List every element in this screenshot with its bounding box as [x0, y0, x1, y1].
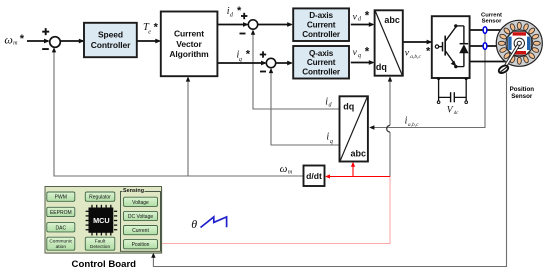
svg-text:Fault: Fault	[95, 239, 106, 245]
wire: J3 to Q-axis Current Controller	[276, 61, 293, 66]
label: Current Sensor	[481, 13, 502, 25]
label: v_abc* voltage command	[405, 46, 431, 61]
svg-text:Regulator: Regulator	[89, 195, 111, 201]
transistor: IGBT inside inverter	[435, 27, 456, 66]
summing junction J2 (d-axis current)	[240, 13, 258, 35]
current sensor dot on phase a	[483, 27, 487, 34]
block: abc to dq transform (Park)	[340, 96, 368, 161]
wire: speed feedback omega_m from d/dt to summing junction J1	[52, 47, 303, 176]
svg-text:Current: Current	[132, 228, 149, 234]
block: Speed Controller	[84, 23, 137, 57]
svg-text:d/dt: d/dt	[306, 171, 322, 181]
label: Vdc	[447, 106, 459, 117]
board button: Regulator	[85, 192, 115, 201]
wire: v_q* from Q-axis controller to abc/dq block	[351, 60, 375, 65]
svg-text:*: *	[426, 46, 431, 58]
wire: theta (pink) from Position block on control board	[158, 177, 391, 244]
board button: DAC	[47, 223, 75, 232]
wire: i_d feedback from dq/abc block to junction J2	[251, 30, 340, 110]
svg-text:Sensing: Sensing	[123, 188, 144, 194]
wire: omega_m branch up into Current Vector Algorithm	[186, 76, 190, 176]
svg-text:Current: Current	[307, 21, 336, 30]
control board base	[45, 187, 162, 254]
svg-text:a,b,c: a,b,c	[410, 54, 421, 60]
wire: i_q feedback from dq/abc block to junction J3	[269, 68, 340, 145]
label: i_q measured	[326, 132, 333, 146]
svg-text:Current: Current	[307, 58, 336, 67]
block: d/dt differentiator	[304, 166, 325, 187]
wire: theta (red) into d/dt block	[325, 174, 390, 178]
board group: Sensing	[121, 187, 161, 251]
svg-text:m: m	[288, 170, 293, 176]
summing junction J3 (q-axis current)	[260, 51, 276, 72]
label: Position Sensor	[510, 86, 535, 100]
label: omega_m* reference	[4, 32, 24, 46]
svg-text:*: *	[365, 46, 370, 58]
svg-text:Controller: Controller	[91, 40, 131, 50]
wire: position sensor signal down right side and into control board	[151, 73, 506, 267]
block: Current Vector Algorithm	[161, 12, 218, 77]
current sensor dot on phase b	[483, 43, 487, 50]
svg-text:Sensor: Sensor	[511, 93, 533, 100]
diode: freewheel diode inside inverter	[454, 24, 469, 68]
board button: DC Voltage	[124, 211, 158, 220]
svg-text:Position: Position	[132, 242, 150, 248]
wire: inverter phase output b to motor	[470, 45, 498, 47]
svg-text:q: q	[330, 139, 333, 145]
wire: v_d* from D-axis controller to abc/dq block	[351, 22, 375, 27]
svg-text:Q-axis: Q-axis	[309, 49, 334, 58]
svg-text:*: *	[365, 11, 370, 23]
block: Q-axis Current Controller	[293, 46, 349, 79]
svg-text:abc: abc	[384, 15, 400, 25]
svg-text:abc: abc	[350, 148, 366, 158]
wire: i_d* from CVA to junction J2	[217, 22, 248, 27]
svg-text:Voltage: Voltage	[132, 200, 149, 206]
label: i_q* current command	[237, 49, 251, 63]
svg-text:Speed: Speed	[98, 30, 123, 40]
label: v_d* voltage command	[353, 11, 370, 23]
board button: Position	[124, 240, 158, 249]
svg-text:ω: ω	[4, 32, 12, 46]
board button: Voltage	[124, 197, 158, 206]
position sensor disc	[498, 64, 510, 74]
board button: Current	[124, 226, 158, 235]
wire: inverter phase output c to motor	[470, 61, 507, 63]
wire: theta (red) up into dq/abc block	[351, 162, 355, 177]
svg-text:Algorithm: Algorithm	[169, 49, 209, 59]
svg-text:m: m	[13, 40, 18, 46]
motor shaft to position sensor	[504, 41, 521, 68]
wire: inverter phase output a to motor	[470, 29, 502, 31]
wire: i_abc measured currents from current sensors to dq/abc block	[369, 30, 485, 130]
label: Te* torque command	[143, 22, 159, 36]
block: inverter outline	[432, 16, 470, 78]
wire: Te* from Speed Controller to Current Vector Algorithm	[137, 39, 161, 44]
board button: EEPROM	[47, 207, 75, 216]
svg-text:DAC: DAC	[56, 225, 67, 231]
svg-text:Controller: Controller	[302, 68, 341, 77]
svg-text:Sensor: Sensor	[482, 19, 502, 25]
svg-text:ω: ω	[280, 163, 288, 175]
svg-text:*: *	[246, 49, 251, 61]
svg-text:*: *	[154, 22, 159, 34]
board button: Communication	[47, 237, 75, 250]
block: D-axis Current Controller	[293, 8, 349, 41]
board button: PWM	[47, 192, 75, 201]
svg-text:q: q	[239, 57, 242, 63]
label: theta with sawtooth waveform	[191, 217, 226, 231]
svg-text:dq: dq	[343, 102, 354, 112]
wire: J2 to D-axis Current Controller	[258, 22, 293, 27]
wire: theta signal up into abc/dq block with hop over i_abc wire	[387, 76, 393, 176]
svg-text:D-axis: D-axis	[309, 11, 333, 20]
wire: omega_m* reference input into J1	[27, 39, 50, 44]
motor: PMSM cross-section	[490, 14, 549, 73]
label: i_d measured	[325, 96, 332, 108]
svg-text:Position: Position	[510, 86, 535, 93]
wire: v_abc* from abc/dq block to inverter	[403, 40, 432, 45]
label: v_q* voltage command	[353, 46, 370, 59]
svg-text:MCU: MCU	[93, 216, 110, 225]
svg-text:Communic: Communic	[49, 239, 73, 245]
svg-text:θ: θ	[191, 217, 197, 231]
svg-text:DC Voltage: DC Voltage	[128, 214, 154, 220]
svg-text:e: e	[148, 30, 151, 36]
svg-text:ation: ation	[56, 244, 67, 250]
svg-text:dq: dq	[376, 62, 387, 72]
capacitor: DC link capacitor C with Vdc	[437, 77, 468, 103]
block: dq to abc transform (inverse Park)	[375, 10, 403, 75]
label: i_abc measured	[405, 115, 420, 128]
board chip: MCU	[86, 205, 118, 236]
svg-text:*: *	[20, 33, 25, 45]
svg-text:Vector: Vector	[176, 39, 202, 49]
svg-text:Detection: Detection	[90, 244, 111, 250]
svg-text:Current: Current	[174, 29, 204, 39]
wire: i_q* from CVA to junction J3	[217, 61, 266, 66]
svg-text:Controller: Controller	[302, 30, 341, 39]
label: i_d* current command	[227, 5, 242, 19]
wire: J1 to Speed Controller	[60, 39, 84, 44]
svg-text:PWM: PWM	[55, 195, 67, 201]
svg-text:*: *	[237, 5, 242, 17]
label: omega_m measured	[280, 163, 293, 175]
summing junction J1 (speed)	[42, 28, 60, 50]
svg-text:EEPROM: EEPROM	[50, 210, 72, 216]
svg-text:q: q	[358, 53, 361, 59]
svg-text:Control Board: Control Board	[72, 259, 137, 270]
svg-text:a,b,c: a,b,c	[408, 122, 419, 128]
board button: Fault Detection	[85, 237, 115, 250]
